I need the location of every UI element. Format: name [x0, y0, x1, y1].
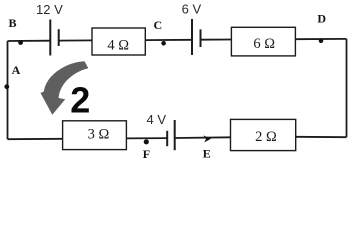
battery 4V long plate — [174, 120, 176, 150]
wire: left side vertical B to bottom corner — [7, 41, 9, 139]
node E junction marker (arrowhead) — [203, 135, 211, 142]
node F junction dot — [144, 139, 149, 144]
wire top: 6ohm resistor to D corner — [295, 38, 346, 40]
node B junction dot — [18, 40, 23, 45]
wire bottom: left corner to 3ohm resistor — [8, 138, 63, 140]
wire bottom: 2ohm resistor to right corner — [296, 136, 347, 138]
current direction curved arrow (gray) — [41, 61, 89, 115]
wire: right side vertical D to 2ohm — [346, 39, 348, 137]
battery 12V long plate — [49, 20, 51, 56]
resistor 6 ohm box — [231, 27, 295, 56]
resistor 2 ohm box — [231, 119, 296, 150]
wire bottom: 4V battery to 2ohm resistor — [175, 136, 231, 139]
wire top: 4ohm resistor to 6V battery — [145, 39, 192, 41]
battery 4V short plate — [166, 131, 168, 146]
svg-text:D: D — [317, 12, 326, 26]
wire top: B corner to 12V battery — [8, 40, 51, 42]
svg-text:4 Ω: 4 Ω — [107, 38, 129, 54]
battery 12V short plate — [58, 29, 60, 46]
battery 6V long plate — [191, 19, 193, 55]
svg-text:C: C — [153, 18, 162, 32]
svg-text:E: E — [203, 147, 211, 161]
resistor 4 ohm box — [92, 28, 145, 55]
svg-text:3 Ω: 3 Ω — [88, 127, 110, 143]
node C junction dot — [161, 41, 166, 46]
wire bottom: 3ohm resistor to 4V battery — [126, 137, 167, 139]
svg-text:12 V: 12 V — [36, 2, 63, 17]
wire top: 6V battery to 6ohm resistor — [201, 39, 232, 41]
svg-text:4 V: 4 V — [147, 112, 167, 127]
svg-text:F: F — [143, 147, 150, 161]
svg-text:A: A — [12, 63, 21, 77]
node D junction dot — [319, 39, 324, 44]
svg-text:2 Ω: 2 Ω — [255, 129, 277, 145]
battery 6V short plate — [200, 29, 202, 47]
svg-text:B: B — [8, 16, 16, 30]
svg-text:6 V: 6 V — [182, 2, 202, 17]
svg-text:2: 2 — [70, 80, 90, 121]
resistor 3 ohm box — [63, 121, 127, 150]
wire top: 12V battery to 4ohm resistor — [59, 39, 92, 41]
node A junction dot — [4, 84, 9, 89]
svg-text:6 Ω: 6 Ω — [253, 36, 275, 52]
